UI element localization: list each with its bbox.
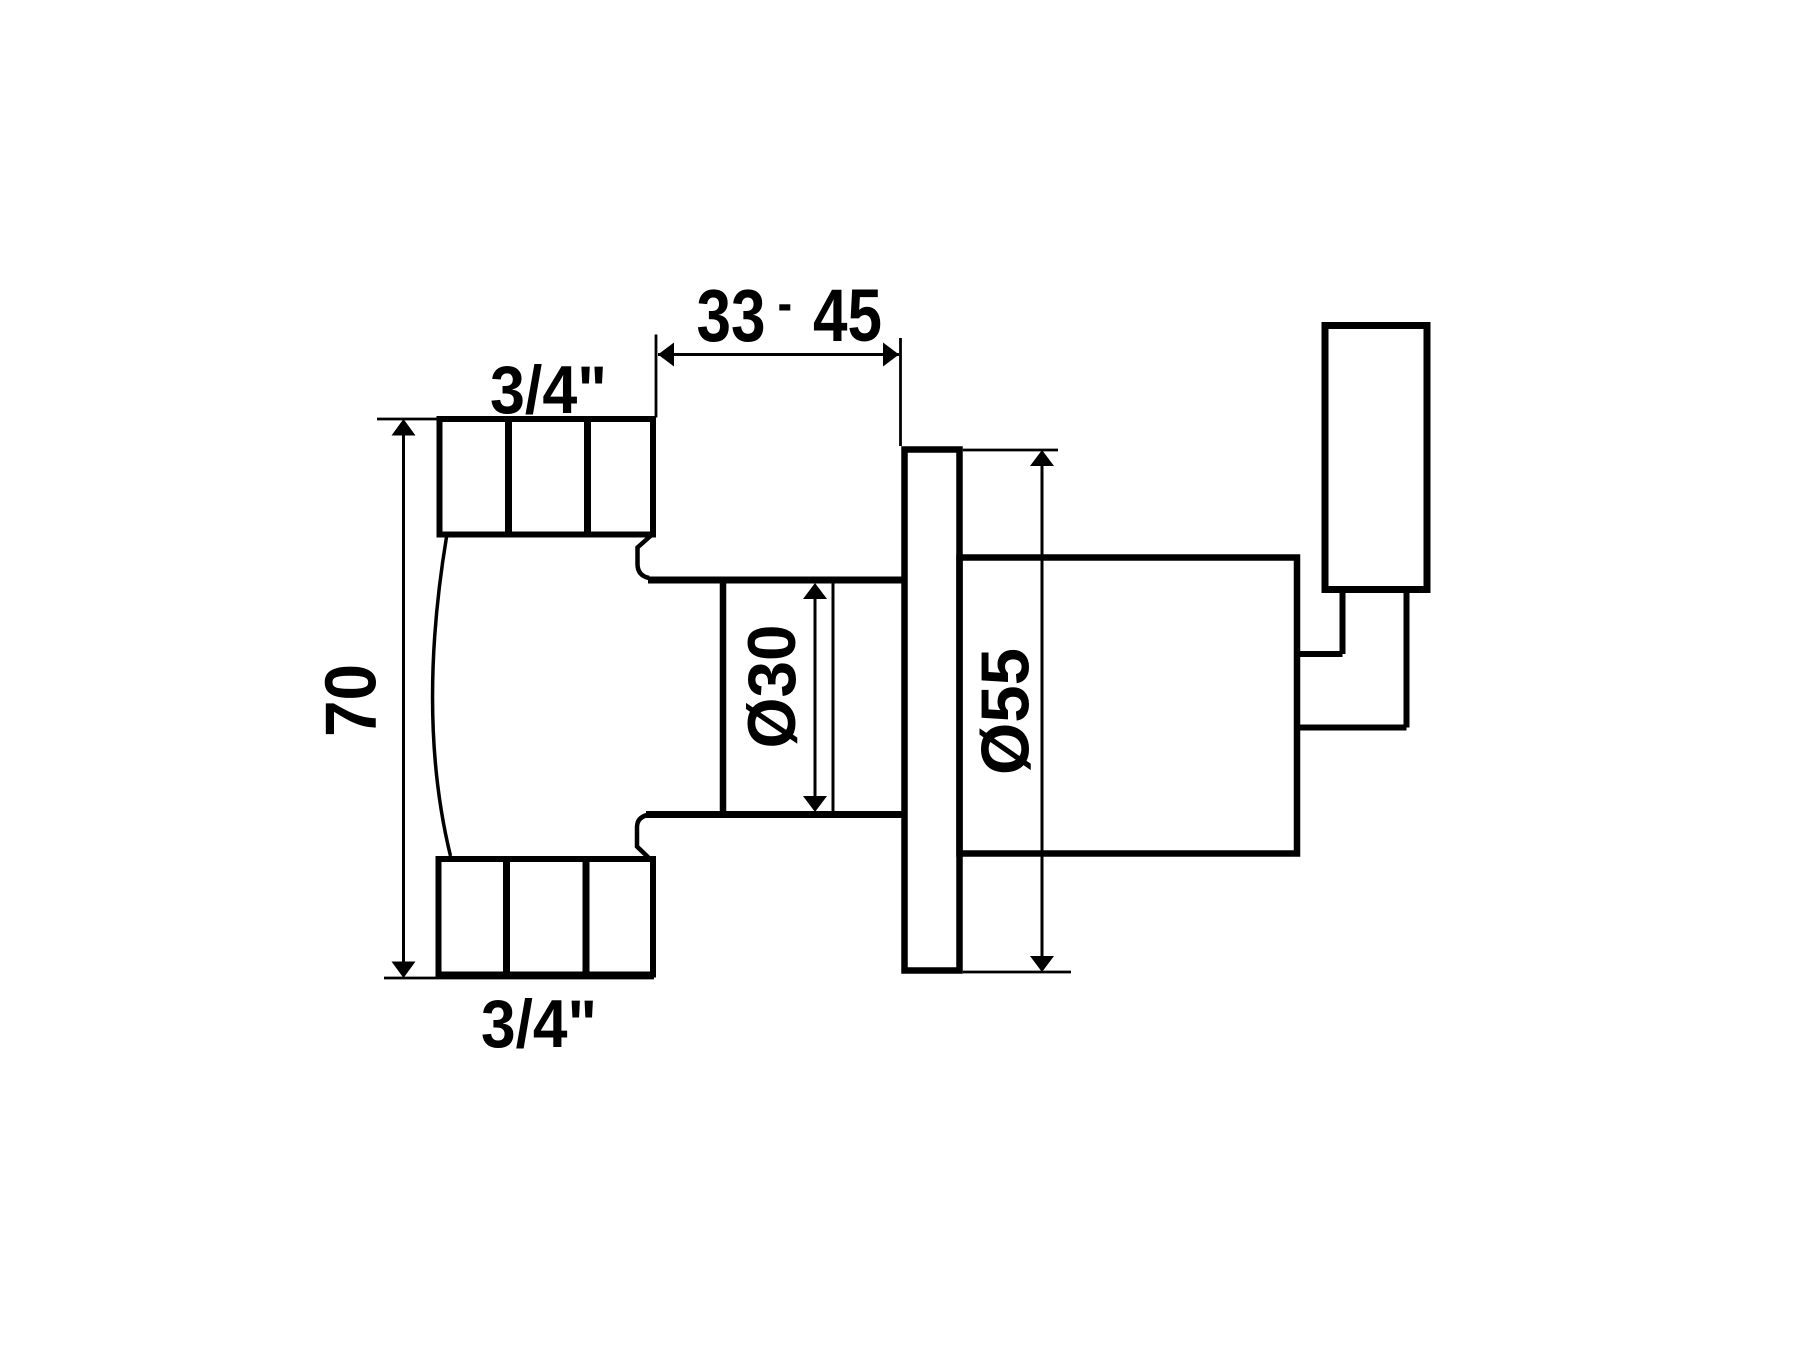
- dimension 33-45 (top): [656, 335, 901, 447]
- cartridge edge line: [832, 584, 835, 812]
- bottom hex fitting 3/4": [439, 859, 654, 975]
- handle stem: [1297, 590, 1407, 728]
- neck bottom edge: [646, 811, 906, 818]
- svg-text:3/4": 3/4": [481, 986, 597, 1062]
- svg-text:33: 33: [697, 274, 766, 357]
- valve body barrel arc (left outline): [433, 537, 451, 856]
- svg-text:3/4": 3/4": [490, 352, 607, 428]
- dimension Ø30 (neck): [814, 585, 817, 810]
- dimension 70 (left): [377, 419, 654, 978]
- dimension Ø55 (flange): [963, 450, 1071, 972]
- top notch between hex and neck: [638, 536, 651, 578]
- handle lever: [1325, 326, 1427, 590]
- body right edge: [720, 577, 727, 818]
- svg-text:Ø55: Ø55: [968, 648, 1044, 775]
- svg-text:45: 45: [813, 274, 882, 357]
- svg-text:70: 70: [312, 664, 392, 737]
- neck top edge: [648, 577, 906, 584]
- bottom notch between neck and hex: [637, 815, 651, 860]
- top hex fitting 3/4": [440, 419, 654, 535]
- svg-text:Ø30: Ø30: [734, 625, 810, 749]
- wall flange (Ø55 plate): [905, 450, 960, 971]
- valve cylinder body: [960, 558, 1298, 854]
